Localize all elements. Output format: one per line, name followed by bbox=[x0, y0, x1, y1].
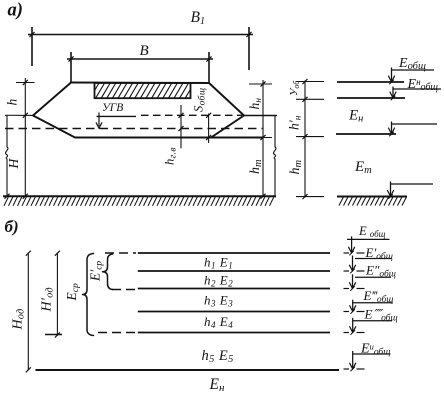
svg-text:Еср: Еср bbox=[64, 283, 81, 301]
svg-text:h1 Е1: h1 Е1 bbox=[204, 255, 233, 271]
svg-text:Е′общ: Е′общ bbox=[365, 245, 393, 262]
svg-text:Е общ: Е общ bbox=[358, 224, 386, 239]
svg-text:Ен: Ен bbox=[209, 376, 225, 394]
svg-text:h′н: h′н bbox=[287, 115, 304, 130]
svg-text:Еобщ: Еобщ bbox=[398, 56, 426, 72]
svg-text:Е⁗общ: Е⁗общ bbox=[364, 307, 398, 324]
svg-text:б): б) bbox=[5, 217, 19, 236]
svg-text:УГВ: УГВ bbox=[102, 102, 123, 114]
svg-text:В: В bbox=[140, 43, 149, 59]
svg-text:а): а) bbox=[8, 1, 23, 21]
svg-text:Е″общ: Е″общ bbox=[365, 263, 396, 280]
svg-text:Н′од: Н′од bbox=[40, 287, 56, 312]
svg-text:Еиобщ: Еиобщ bbox=[360, 341, 390, 358]
svg-text:Нод: Нод bbox=[11, 309, 27, 331]
svg-text:Енобщ: Енобщ bbox=[407, 77, 439, 94]
svg-text:hт: hт bbox=[248, 159, 264, 174]
svg-text:Е′ср: Е′ср bbox=[88, 261, 105, 282]
svg-text:h3 Е3: h3 Е3 bbox=[204, 293, 233, 309]
svg-text:h2 Е2: h2 Е2 bbox=[204, 273, 233, 289]
svg-text:Е‴общ: Е‴общ bbox=[363, 288, 394, 305]
svg-text:Sобщ: Sобщ bbox=[192, 88, 208, 112]
svg-text:Н: Н bbox=[6, 158, 21, 170]
svg-text:В1: В1 bbox=[191, 9, 205, 27]
svg-text:h5 Е5: h5 Е5 bbox=[202, 348, 234, 365]
svg-text:hн: hн bbox=[247, 98, 264, 110]
svg-text:Уоб: Уоб bbox=[288, 80, 301, 96]
svg-text:hт: hт bbox=[288, 160, 304, 175]
svg-text:h: h bbox=[5, 99, 20, 106]
svg-text:Ен: Ен bbox=[348, 108, 363, 125]
svg-text:hг.в: hг.в bbox=[163, 147, 179, 165]
svg-text:Ет: Ет bbox=[354, 159, 372, 176]
svg-text:h4 Е4: h4 Е4 bbox=[204, 314, 233, 330]
